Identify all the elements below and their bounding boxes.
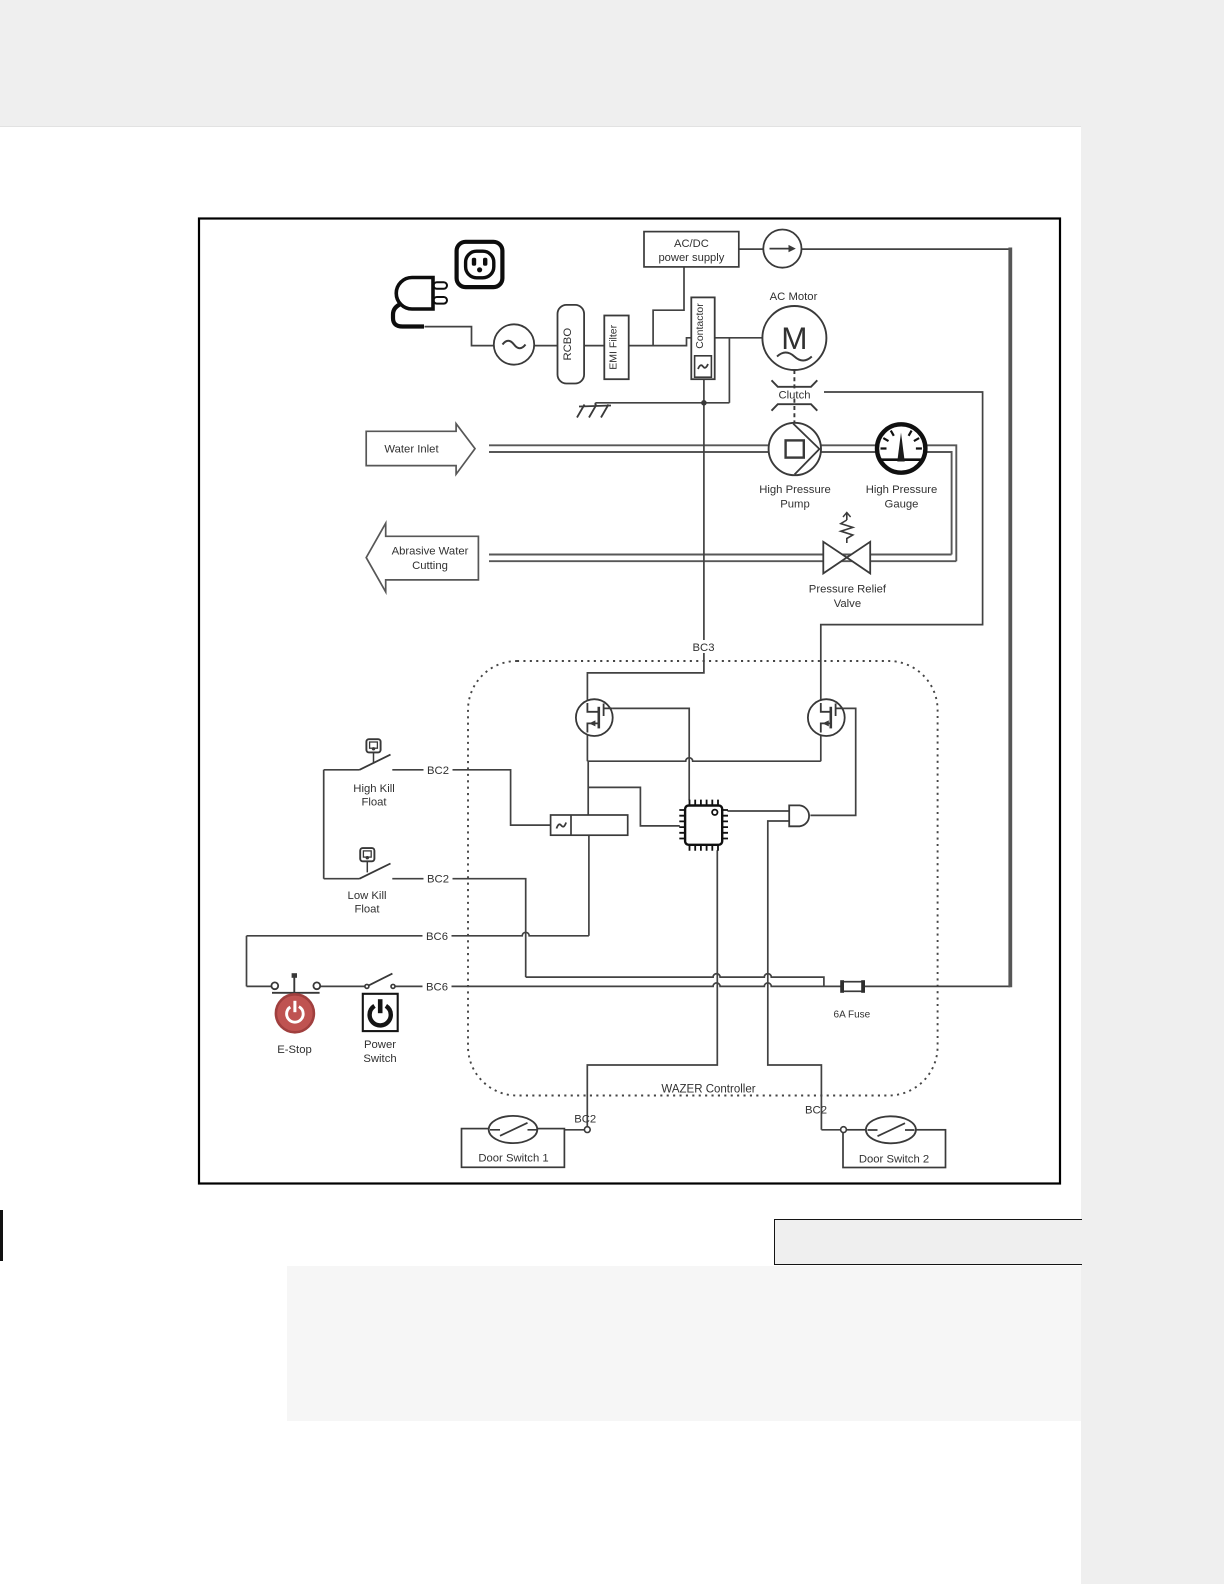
AC source circle [494,324,534,364]
wire: thick right return bus [1008,248,1012,988]
label: High Kill Float [353,783,394,809]
wire: contactor down to BC3 and left MOSFET [587,379,704,701]
svg-text:AC/DC: AC/DC [674,238,709,250]
AC/DC power supply [644,232,739,267]
label: BC6 node (bus) [423,929,452,943]
diagram outer frame [199,219,1060,1184]
svg-text:High Pressure: High Pressure [759,484,831,496]
svg-text:Pressure Relief: Pressure Relief [809,584,887,596]
wire: high kill float circuit to relay [324,770,551,825]
svg-text:WAZER Controller: WAZER Controller [661,1084,755,1096]
wire: AND gate second input from below [768,821,822,1130]
svg-text:EMI Filter: EMI Filter [608,324,620,369]
wire: clutch tap to right MOSFET [821,392,983,702]
wire: AND gate output up to right MOSFET [810,708,855,815]
label: BC2 node (high kill) [424,763,453,777]
6A fuse F1 [840,980,865,993]
svg-text:AC Motor: AC Motor [770,291,818,303]
wire: MOSFET source bus with hop [587,734,820,761]
wire: door switch 2 lead [821,1129,866,1131]
wire: metering circle to right bus [802,248,1011,250]
label: Low Kill Float [348,890,387,916]
wire: low kill float circuit [324,879,526,977]
wire: AC source to RCBO [534,345,557,347]
label: Clutch [778,389,812,402]
node: ground bus junction dot [701,400,707,406]
wire: chip bottom pin down to door switch 1 [587,850,717,1130]
Abrasive Water Cutting block arrow [366,523,478,592]
svg-text:E-Stop: E-Stop [277,1044,312,1056]
Water Inlet block arrow [366,424,475,475]
wire: fuse to right bus [863,985,1010,987]
svg-text:BC6: BC6 [426,931,448,943]
wire: EMI filter to contactor with jog [629,338,692,346]
MOSFET Q1 [576,699,613,736]
high kill float switch [360,739,391,770]
wire: AC/DC supply to metering circle [739,248,763,250]
label: BC6 node (e-stop line) [423,980,452,994]
svg-text:Cutting: Cutting [412,560,448,572]
wire: ground bus [595,402,729,404]
wire: contactor to AC motor [715,337,763,339]
AC motor M [762,306,826,370]
e-stop NC contact [271,973,320,993]
svg-text:Gauge: Gauge [885,499,919,511]
power switch icon [363,994,398,1031]
wire: e-stop to power switch [320,985,365,987]
wire: low kill extension with hops to fuse line [526,974,824,987]
svg-text:Low Kill: Low Kill [348,890,387,902]
power switch contact [365,974,395,989]
high pressure pump [769,423,821,475]
svg-text:BC2: BC2 [805,1105,827,1117]
wire: BC6 down link to e-stop line [246,936,248,987]
label: Pressure Relief Valve [809,584,887,611]
wire: BC6 bus with hop to relay [247,932,589,936]
wire: motor wire branch down to ground bus [728,338,730,403]
wire: relay branch to chip left pin [588,787,680,826]
pressure relief valve [823,513,870,574]
wire: high kill to low kill left link [323,770,325,879]
svg-text:Power: Power [364,1039,396,1051]
label: BC3 node [690,640,719,654]
svg-text:High Kill: High Kill [353,783,394,795]
RCBO breaker [558,305,585,384]
svg-text:BC3: BC3 [693,642,715,654]
wire: power switch to fuse with hops [395,983,842,987]
wire: relay box bottom to BC6 line [588,835,590,936]
label: Abrasive Water Cutting [392,546,469,573]
wire: chip right pin to AND gate input [728,810,790,812]
svg-text:BC6: BC6 [426,982,448,994]
svg-text:Clutch: Clutch [778,390,810,402]
svg-text:Valve: Valve [834,598,861,610]
MOSFET Q2 [808,699,845,736]
svg-text:Door Switch 1: Door Switch 1 [478,1153,548,1165]
low kill float switch [360,848,391,879]
svg-text:6A Fuse: 6A Fuse [834,1010,871,1021]
svg-text:BC2: BC2 [574,1114,596,1126]
microcontroller U1 [679,800,728,851]
svg-text:Contactor: Contactor [694,303,706,349]
svg-text:Water Inlet: Water Inlet [384,444,439,456]
svg-text:BC2: BC2 [427,874,449,886]
wire: source bus down to relay coil box [587,761,589,815]
AND gate [789,805,809,826]
ground chassis symbol [577,403,611,418]
wire: door switch 1 lead [537,1129,587,1131]
door switch 2 [841,1116,946,1167]
svg-text:RCBO: RCBO [562,328,574,361]
wire: e-stop line left [247,985,272,987]
label: BC2 node (low kill) [424,872,453,886]
kill relay box [551,815,628,835]
svg-text:Switch: Switch [363,1053,396,1065]
EMI Filter [604,316,628,380]
wire: high pressure pipe from pump through gauge, turn down [821,445,956,561]
WAZER Controller dashed enclosure [468,661,938,1096]
plug icon [393,278,447,327]
E-Stop button [276,994,314,1032]
clutch coupling [772,370,818,424]
high pressure gauge [877,424,925,472]
outlet icon [457,242,503,287]
label: High Pressure Pump [759,484,831,511]
label: AC/DC power supply [658,238,724,264]
svg-text:Door Switch 2: Door Switch 2 [859,1154,929,1166]
wire: plug cord to AC source circle [425,327,494,346]
wire: abrasive water pipe from vertical through valve to arrow [489,555,956,562]
current metering circle [763,230,801,268]
svg-text:Float: Float [354,904,380,916]
wire: left MOSFET gate to chip top pin [613,708,690,800]
svg-text:M: M [781,320,807,356]
wire: RCBO to EMI filter [584,345,604,347]
door switch 1 [462,1116,591,1167]
svg-text:High Pressure: High Pressure [866,484,938,496]
svg-text:Float: Float [361,797,387,809]
svg-text:Pump: Pump [780,499,810,511]
svg-text:power supply: power supply [658,252,724,264]
contactor K1 [691,297,714,379]
wire: water inlet pipe (double line) to pump [489,445,769,452]
label: High Pressure Gauge [866,484,938,511]
wire: AC/DC supply branch down to mains wire [653,267,684,346]
svg-text:Abrasive Water: Abrasive Water [392,546,469,558]
label: Power Switch [363,1039,396,1065]
svg-text:BC2: BC2 [427,765,449,777]
